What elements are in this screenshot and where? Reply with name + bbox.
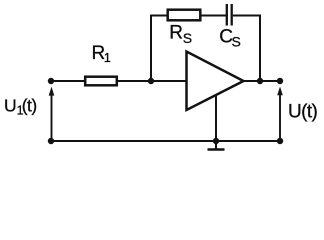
capacitor CS plate left [226, 4, 228, 26]
node bottom right terminal [277, 138, 283, 144]
svg-text:CS: CS [219, 26, 241, 49]
wire bottom [51, 140, 280, 142]
resistor R1 [85, 77, 117, 86]
node output junction [257, 78, 263, 84]
node bottom junction [213, 138, 219, 144]
wire output [244, 80, 281, 82]
svg-text:RS: RS [169, 22, 192, 45]
ground [208, 148, 225, 151]
svg-text:R1: R1 [92, 43, 111, 65]
wire RS to CS [200, 15, 226, 17]
svg-text:U(t): U(t) [288, 102, 318, 123]
node output terminal [277, 78, 283, 84]
wire op-amp ground drop [215, 95, 217, 150]
op-amp U1 [187, 52, 244, 111]
capacitor CS plate right [231, 4, 233, 26]
wire CS to right corner [233, 15, 261, 17]
wire feedback top left [150, 15, 168, 17]
resistor RS [168, 10, 201, 21]
voltage arrow U1(t) [49, 87, 55, 139]
svg-text:U1(t): U1(t) [4, 96, 37, 118]
wire feedback right vertical [259, 15, 261, 82]
wire input left [51, 80, 85, 82]
node input terminal [48, 78, 54, 84]
wire R1 to op-amp [117, 80, 187, 82]
node inverting input junction [148, 78, 154, 84]
node bottom left terminal [48, 138, 54, 144]
voltage arrow U(t) [277, 87, 283, 140]
wire feedback left vertical [150, 15, 152, 82]
